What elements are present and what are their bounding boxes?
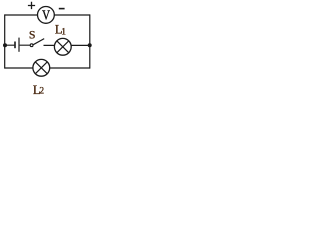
svg-text:1: 1 bbox=[61, 27, 66, 37]
svg-text:V: V bbox=[42, 7, 50, 23]
svg-text:S: S bbox=[29, 28, 36, 42]
svg-text:2: 2 bbox=[39, 87, 44, 97]
